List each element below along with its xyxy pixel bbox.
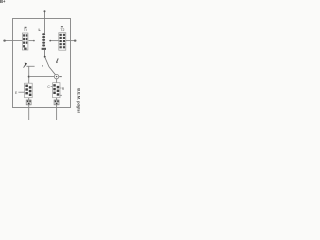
node junction dot: [28, 76, 30, 78]
wire R2 to ground lug: [56, 98, 58, 120]
wire label lead C: [51, 86, 53, 88]
wire pole to R2: [56, 79, 58, 83]
transformer T2 (right winding stack): [59, 33, 66, 51]
resistor R1 (element stack): [25, 83, 33, 98]
wire T2 right to terminal: [66, 40, 76, 42]
transformer T1 (left winding stack): [22, 33, 28, 50]
enclosure frame: [13, 19, 71, 108]
svg-text:Ti: Ti: [24, 28, 27, 32]
wire label lead: [18, 91, 24, 93]
wire R2 tap right: [60, 94, 62, 96]
switch S1 open contact: [57, 58, 59, 62]
node terminal top: [44, 10, 46, 12]
switch S1 pole (rotor circle): [54, 74, 58, 78]
switch S1 lever: [45, 57, 56, 74]
wire stub at y66: [26, 65, 34, 67]
inductor L (choke coil): [42, 33, 46, 50]
wire pole stub right: [59, 76, 62, 78]
svg-text:B+: B+: [0, 0, 6, 4]
svg-text:B.E.M. pdgtei: B.E.M. pdgtei: [77, 88, 80, 113]
wire left input at y40: [4, 40, 23, 42]
wire coil to switch contact: [44, 50, 46, 57]
connector lug left: [26, 100, 31, 105]
node terminal right: [74, 40, 77, 42]
wiper arrow mark: [24, 64, 26, 68]
wire from frame top to coil: [44, 19, 46, 34]
wire junction to switch pole: [29, 76, 55, 78]
wire vertical to R1: [28, 66, 30, 83]
label T2: [61, 26, 63, 27]
svg-text:T2: T2: [60, 28, 64, 32]
label T1: [25, 27, 27, 28]
node dot: [49, 40, 51, 42]
node terminal left: [3, 40, 6, 42]
node switch contact A: [44, 56, 46, 58]
resistor R2 (element stack): [53, 83, 60, 98]
connector lug right: [54, 100, 59, 105]
wire label lead R: [60, 87, 62, 89]
wire T2 left: [50, 40, 59, 42]
wire T1 secondary right: [29, 40, 35, 42]
wire R1 to ground lug: [28, 98, 30, 120]
wire B+ stub into top of frame: [44, 11, 46, 19]
